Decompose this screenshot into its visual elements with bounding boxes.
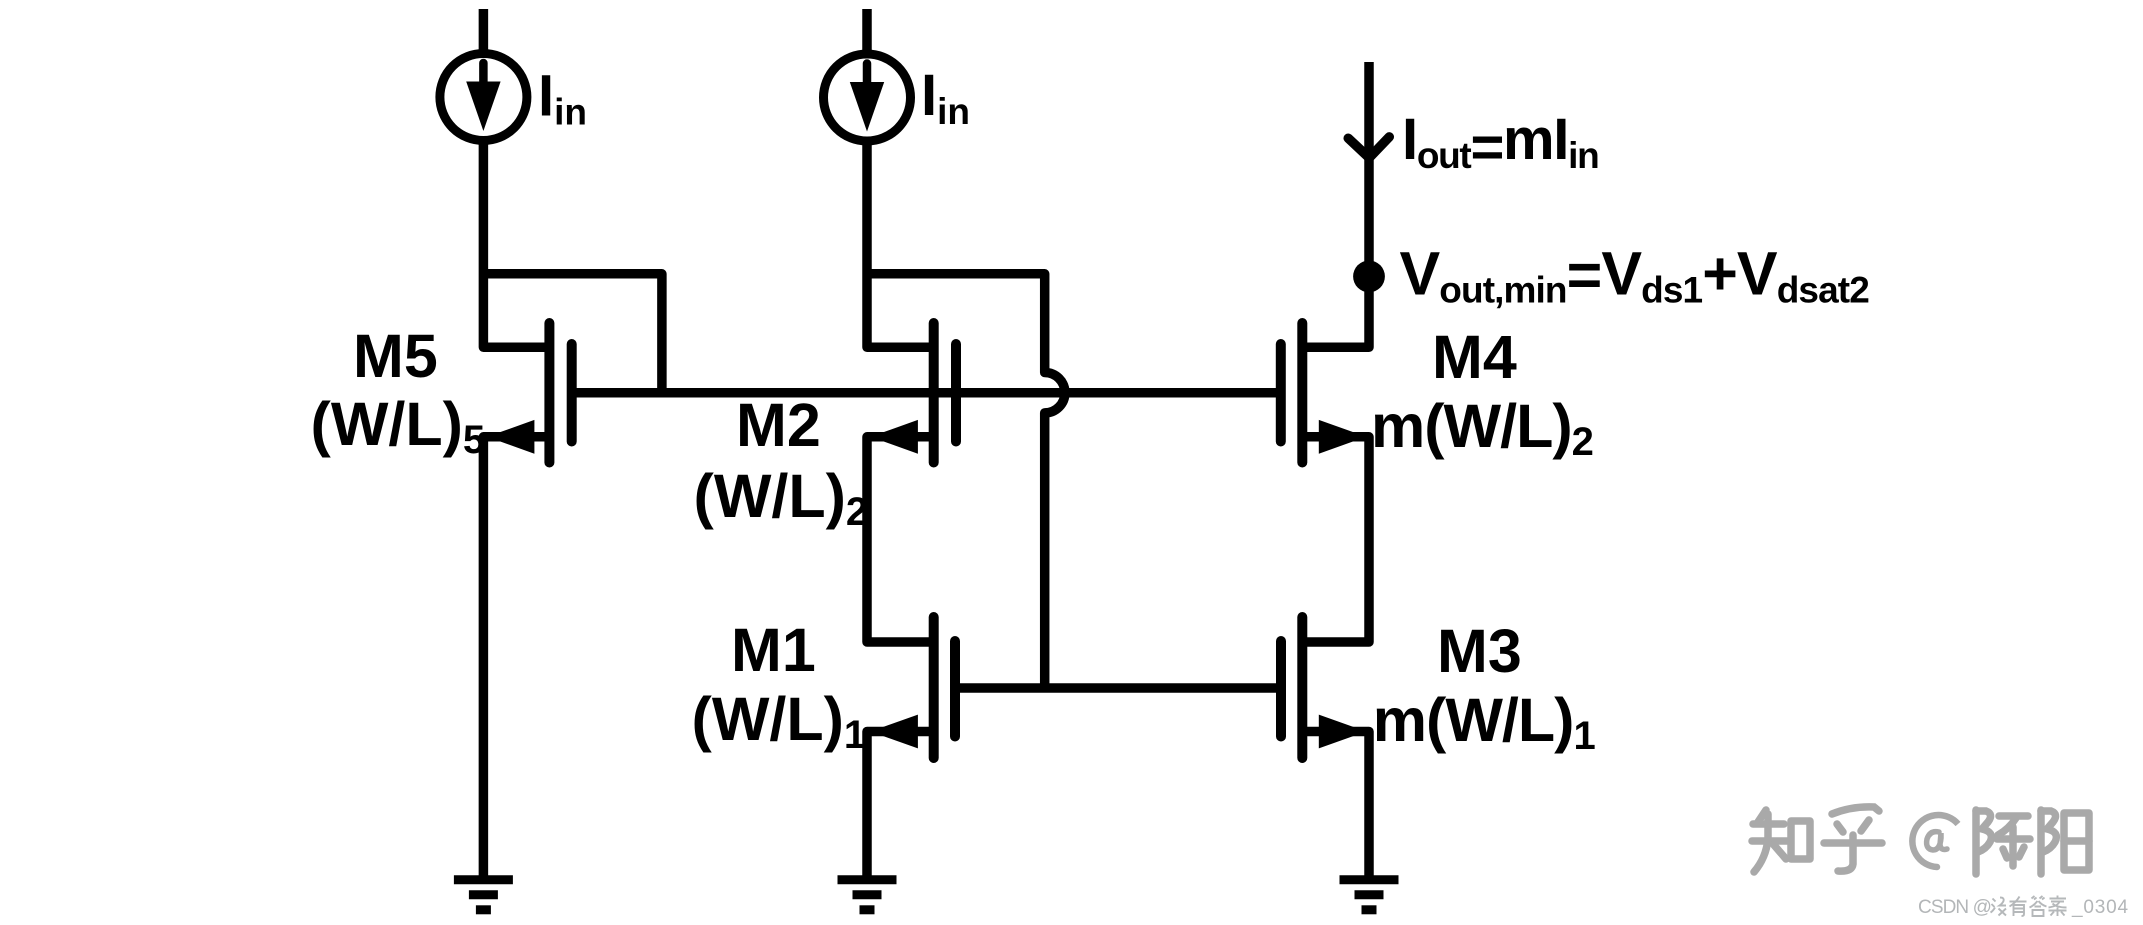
svg-text:m(W/L)2: m(W/L)2: [1371, 392, 1593, 464]
current source I2 circle: [824, 54, 911, 141]
知: [1758, 810, 1766, 822]
svg-text:CSDN @: CSDN @: [1918, 897, 1991, 918]
transistor M3: [1281, 617, 1366, 758]
svg-text:(W/L)2: (W/L)2: [694, 462, 869, 534]
svg-text:_0304: _0304: [2071, 897, 2129, 918]
current source I1 arrow: [466, 63, 500, 131]
current source I2 arrow: [850, 64, 884, 132]
svg-text:M4: M4: [1432, 323, 1517, 391]
wire: I1 to M5 drain: [483, 141, 549, 347]
transistor M5: [487, 323, 572, 463]
svg-text:M3: M3: [1437, 617, 1522, 685]
current source I1 circle: [440, 54, 527, 141]
wire: lower gate rail M1-M3: [955, 683, 1281, 693]
transistor M4: [1281, 323, 1366, 463]
@: [1912, 815, 1958, 867]
wire: M1 source to ground: [867, 732, 934, 876]
svg-text:m(W/L)1: m(W/L)1: [1373, 686, 1596, 758]
wire: M3 source to ground: [1302, 732, 1369, 876]
ground (middle): [838, 880, 897, 910]
output current arrow: [1348, 137, 1389, 158]
wire: I2 to M2 drain: [867, 142, 934, 348]
wire: input column A above current source: [479, 9, 489, 52]
svg-text:M5: M5: [353, 322, 438, 390]
wire: M5 diode connection loop: [483, 274, 662, 393]
wire: M5 source to ground: [483, 437, 549, 876]
答: [2032, 896, 2045, 900]
wire: output column: [1302, 62, 1369, 347]
案: [2049, 896, 2067, 917]
ground (right): [1340, 880, 1399, 910]
没: [1991, 899, 1996, 913]
svg-text:(W/L)1: (W/L)1: [692, 685, 867, 757]
wire: M2 drain to M1/M3 gates (hops over gate rail): [867, 274, 1065, 688]
svg-text:M1: M1: [731, 616, 816, 684]
svg-text:M2: M2: [736, 391, 821, 459]
wire: input column B above current source: [862, 9, 872, 52]
watermark CSDN @没有答案_0304: [1918, 896, 2129, 918]
阳: [2037, 810, 2045, 874]
svg-text:(W/L)5: (W/L)5: [311, 390, 486, 462]
transistor M1: [871, 617, 956, 758]
wire: M4 source to M3 drain: [1302, 437, 1369, 642]
transistor M2: [871, 323, 957, 463]
node Vout (junction dot): [1353, 261, 1385, 293]
wire: M2 source to M1 drain: [867, 437, 934, 642]
wire: gate rail M5-M2-M4: [572, 388, 1281, 398]
ground (left): [454, 880, 513, 910]
有: [2010, 897, 2027, 907]
watermark 知乎 @陈阳: [1752, 807, 2089, 874]
陈: [1972, 810, 1980, 874]
乎: [1832, 807, 1879, 814]
